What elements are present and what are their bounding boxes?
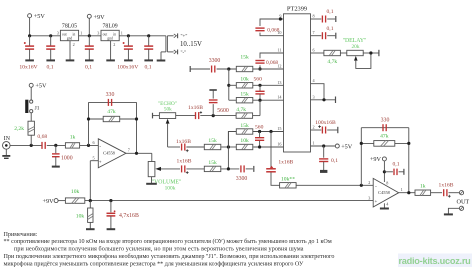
capacitor 1x16B (pin15 chain) xyxy=(266,169,276,172)
power terminal +5V (pin1) xyxy=(335,144,339,148)
capacitor 1x16B (volume row) xyxy=(182,165,185,172)
potentiometer ECHO 50k body xyxy=(159,113,175,119)
wire op1 +in xyxy=(90,160,98,162)
wire cap 560b lower lead xyxy=(259,141,261,147)
junction raw rail / C5 xyxy=(147,34,150,37)
wire output to volume xyxy=(151,153,153,161)
svg-text:C4558: C4558 xyxy=(103,151,116,156)
wire pin7 cap to tick xyxy=(327,35,335,37)
wire pin8 cap to tick xyxy=(327,18,335,20)
svg-text:5600: 5600 xyxy=(217,108,229,114)
svg-text:4,7k: 4,7k xyxy=(327,59,337,65)
junction bias cap xyxy=(109,199,112,202)
capacitor C5 0,1 xyxy=(144,46,153,49)
svg-text:+5V: +5V xyxy=(341,143,353,150)
terminal tick row12 xyxy=(189,66,191,72)
wire OUT ground xyxy=(448,208,459,213)
svg-text:при необходимости получения бо: при необходимости получения большего уси… xyxy=(14,246,304,253)
wire pin7 xyxy=(311,35,322,37)
wire cap 560b upper lead xyxy=(259,132,261,138)
svg-text:0,068: 0,068 xyxy=(266,60,278,66)
resistor 15k (pin14) xyxy=(236,98,253,103)
svg-text:+5V: +5V xyxy=(35,83,47,90)
wire op2 47k row xyxy=(361,142,409,144)
wire volume wiper row xyxy=(161,168,180,170)
svg-text:3300: 3300 xyxy=(209,58,221,64)
capacitor 1x16B (echo row) xyxy=(196,112,199,119)
svg-text:0,1: 0,1 xyxy=(46,65,53,71)
plus mark 1x16B echo xyxy=(200,111,202,113)
svg-text:1x16B: 1x16B xyxy=(439,183,454,189)
svg-text:100x16V: 100x16V xyxy=(117,65,139,71)
wire 5600 lower lead xyxy=(212,104,214,116)
svg-text:47k: 47k xyxy=(380,133,389,139)
wiper arrow VOLUME xyxy=(155,167,161,171)
svg-text:330: 330 xyxy=(106,92,115,98)
svg-text:1k: 1k xyxy=(70,135,76,141)
wire J1 to 2,2k xyxy=(30,113,32,121)
plus mark 1x16B out xyxy=(448,195,451,198)
svg-text:gnd: gnd xyxy=(107,37,113,41)
ground under 4,7x16B xyxy=(107,216,116,229)
svg-text:47k: 47k xyxy=(107,109,116,115)
junction 5600 node xyxy=(212,114,215,117)
wire row147 to chip xyxy=(253,146,283,148)
junction 47k right (op2) xyxy=(407,142,410,145)
wire +5V rail xyxy=(30,35,61,37)
power terminal +5V (J1) xyxy=(29,83,33,87)
svg-text:2: 2 xyxy=(368,180,370,185)
ground of power input xyxy=(157,52,166,61)
wire op1 feedback left xyxy=(88,102,90,145)
wire minus stub xyxy=(167,51,173,53)
wire 4,7k to pot xyxy=(340,52,346,54)
resistor 15k (volume row) xyxy=(204,166,221,171)
wire pin 10 loop xyxy=(260,33,284,36)
wire pin8 xyxy=(311,18,322,20)
svg-text:+9V: +9V xyxy=(94,14,106,21)
svg-text:10..15V: 10..15V xyxy=(180,41,202,48)
capacitor C1 lead xyxy=(29,36,31,46)
resistor 47k (op2) xyxy=(374,141,395,147)
ground tick op2 0,1 xyxy=(403,169,405,175)
capacitor 4,7x16B xyxy=(107,213,116,216)
svg-text:6: 6 xyxy=(93,140,95,145)
wire +5V to J1 xyxy=(30,87,32,100)
svg-text:1: 1 xyxy=(313,141,315,146)
jumper J1 xyxy=(25,100,33,113)
wire pin2 xyxy=(311,129,322,131)
wire 10k** to op-amp2 xyxy=(296,184,373,186)
wire volume row a xyxy=(186,168,204,170)
op-amp U4.1 C4558 xyxy=(98,139,126,168)
svg-text:10k: 10k xyxy=(240,77,249,83)
op-amp U4.2 C4558 xyxy=(373,178,399,207)
IC U1 PT2399 body xyxy=(284,14,311,152)
junction raw rail / C4 xyxy=(127,34,130,37)
ground under C3 xyxy=(85,49,94,60)
regulator U2 78L05 xyxy=(60,30,78,40)
junction 1000 node xyxy=(54,144,57,147)
svg-text:15k: 15k xyxy=(240,92,249,98)
capacitor 330 (op2) xyxy=(383,124,386,131)
wire IN to junction xyxy=(10,144,42,146)
svg-text:4,7k: 4,7k xyxy=(236,107,246,113)
regulator U3 78L09 xyxy=(101,30,119,40)
wire op2 0,1 row xyxy=(384,171,393,173)
wire 4,7x16B lead xyxy=(110,201,112,213)
wiper arrow DELAY xyxy=(354,56,358,61)
svg-text:1: 1 xyxy=(80,31,82,36)
svg-text:2: 2 xyxy=(113,42,115,47)
wire pin 11 loop xyxy=(260,53,284,58)
svg-text:100k: 100k xyxy=(165,185,176,191)
capacitor C3 0,1 xyxy=(85,46,94,49)
svg-text:in: in xyxy=(73,33,76,37)
terminal tick 3300 xyxy=(253,166,255,172)
svg-text:"+": "+" xyxy=(181,35,188,40)
wire echo wiper row xyxy=(168,146,180,148)
junction row15 cap xyxy=(258,130,261,133)
ground tick delay xyxy=(378,50,380,56)
ground under 78L09 xyxy=(106,41,115,61)
wire pot to junction xyxy=(363,52,378,54)
svg-text:4,7x16B: 4,7x16B xyxy=(119,213,139,219)
capacitor 0,1 (pin1) xyxy=(319,159,328,162)
junction pin 9 stub xyxy=(279,17,282,20)
svg-text:in: in xyxy=(113,33,116,37)
wire op1 +in drop to rail xyxy=(89,161,91,201)
resistor 4,7k (pin6) xyxy=(324,50,341,55)
wire pin6 xyxy=(311,52,324,54)
wire pin 9 loop xyxy=(260,19,284,26)
svg-text:3300: 3300 xyxy=(236,176,248,182)
wire row13 to chip xyxy=(253,84,284,86)
capacitor C4 100x16V xyxy=(124,46,133,49)
watermark background xyxy=(398,254,472,268)
capacitor 0,068 (pins 11-12) xyxy=(255,61,264,64)
wire 5600 upper lead xyxy=(212,91,214,99)
wire pin3 xyxy=(311,99,336,101)
wire riser pin15 down xyxy=(270,132,272,169)
ground under C1 xyxy=(25,49,34,60)
svg-text:100x16B: 100x16B xyxy=(315,120,336,126)
power terminal +5V (top left) xyxy=(28,14,32,18)
wire op1 feedback top xyxy=(89,101,137,103)
wire bus rows15-169 xyxy=(227,132,229,169)
svg-text:IN: IN xyxy=(4,136,11,142)
wire row14 to chip xyxy=(253,99,284,101)
svg-text:+9V: +9V xyxy=(370,156,382,163)
terminal bar above 5600 xyxy=(209,89,216,91)
svg-text:Примечания:: Примечания: xyxy=(4,232,38,238)
svg-text:8: 8 xyxy=(313,14,315,19)
svg-text:При подключении электретного м: При подключении электретного микрофона н… xyxy=(4,253,335,260)
svg-text:0,068: 0,068 xyxy=(267,28,279,34)
junction delay xyxy=(369,51,372,54)
svg-text:1: 1 xyxy=(401,187,403,192)
svg-text:330: 330 xyxy=(381,117,390,123)
svg-text:560: 560 xyxy=(255,124,264,130)
plus mark C1 xyxy=(24,42,26,44)
capacitor 3300 (row12) xyxy=(212,66,215,73)
wire pin2 cap to tick xyxy=(327,129,337,131)
svg-text:78L09: 78L09 xyxy=(103,24,118,30)
wire cap 560 lower lead xyxy=(259,94,261,100)
svg-text:0,1: 0,1 xyxy=(327,9,334,15)
wire bias a xyxy=(58,200,65,202)
ground under VOLUME xyxy=(146,177,157,184)
plus mark 100x16B xyxy=(318,125,321,128)
svg-text:15k: 15k xyxy=(208,138,217,144)
junction op2 inverting node xyxy=(360,184,363,187)
connector IN xyxy=(3,142,11,150)
terminal tick ECHO left xyxy=(152,113,154,119)
wire row15 left corner xyxy=(228,132,236,148)
ground under 78L05 xyxy=(66,41,75,61)
plus mark C4 xyxy=(123,42,125,44)
svg-text:50k: 50k xyxy=(164,107,172,113)
wire 4,7k to riser xyxy=(253,115,260,117)
ground tick pin2 xyxy=(337,127,339,133)
wire op2 feedback left xyxy=(360,128,362,186)
svg-text:560: 560 xyxy=(254,76,263,82)
svg-text:10k**: 10k** xyxy=(281,177,295,183)
svg-text:1x16B: 1x16B xyxy=(177,159,192,165)
junction bus volume row xyxy=(227,167,230,170)
capacitor 1000 lead xyxy=(55,145,57,153)
ground under OUT xyxy=(444,213,453,215)
ground tick pin8 xyxy=(335,16,337,22)
junction row14 xyxy=(258,99,261,102)
wire op2 supply xyxy=(383,161,385,182)
svg-text:+9V: +9V xyxy=(43,198,55,205)
resistor 47k (op1) xyxy=(103,116,120,121)
junction pin1 xyxy=(322,144,325,147)
svg-text:7: 7 xyxy=(128,148,130,153)
wire op2 feedback top xyxy=(361,127,409,129)
junction op2 supply cap xyxy=(383,170,386,173)
resistor 10k (bias top) xyxy=(65,198,84,203)
wire echo left xyxy=(153,115,160,117)
svg-text:"-": "-" xyxy=(181,51,187,56)
ground under bias 10k xyxy=(86,222,95,229)
wire row13 left xyxy=(229,84,237,86)
plus mark 1x16B chain xyxy=(270,166,274,169)
capacitor 0,68 xyxy=(42,142,45,149)
wire minus to ground xyxy=(161,51,166,53)
plus mark 1x16B row147 xyxy=(186,149,189,152)
ground tick pin7 xyxy=(335,33,337,39)
svg-text:+: + xyxy=(374,200,377,205)
resistor 15k (pin15) xyxy=(236,129,253,134)
resistor 4,7k (row 14 feed) xyxy=(236,113,253,118)
wire row14 left xyxy=(229,99,237,101)
junction +9V rail / C3 xyxy=(88,34,91,37)
svg-text:+: + xyxy=(99,161,102,166)
junction IN / 2,2k xyxy=(30,144,33,147)
svg-text:radio-kits.ucoz.ru: radio-kits.ucoz.ru xyxy=(398,256,470,266)
wire echo wiper down xyxy=(167,123,169,147)
capacitor 5600 xyxy=(209,100,218,103)
wire +9V vertical xyxy=(88,18,90,36)
potentiometer DELAY 20k body xyxy=(347,50,363,55)
svg-text:78L05: 78L05 xyxy=(62,24,77,30)
ground under 1000 xyxy=(52,157,60,167)
svg-text:0,1: 0,1 xyxy=(327,26,334,32)
svg-text:0,1: 0,1 xyxy=(331,158,338,164)
wire row12 left xyxy=(190,68,210,70)
wire riser to row14 xyxy=(259,100,261,115)
wire 1k to cap xyxy=(431,192,443,194)
wire cap to OUT xyxy=(449,192,460,194)
svg-text:0,1: 0,1 xyxy=(393,162,400,168)
svg-text:5: 5 xyxy=(93,155,95,160)
ground tick pin3 xyxy=(335,97,337,104)
capacitor C1 10x16V xyxy=(25,46,34,49)
junction +5V rail / C1 xyxy=(28,34,31,37)
svg-text:15k: 15k xyxy=(208,160,217,166)
ground under C4 xyxy=(124,49,133,60)
wire row147 b xyxy=(221,146,236,148)
svg-text:15k: 15k xyxy=(240,123,249,129)
wiper arrow ECHO xyxy=(166,119,170,124)
wire 10k-v top lead xyxy=(89,201,91,208)
resistor 10k (bias bottom) xyxy=(88,208,93,222)
junction bus row13 xyxy=(227,84,230,87)
svg-text:16: 16 xyxy=(277,142,281,147)
wire cap 560 upper lead xyxy=(259,85,261,91)
wire 1x16B to 10k** xyxy=(271,172,280,185)
ground under pin1 cap xyxy=(320,162,327,172)
junction +5V rail / C2 xyxy=(49,34,52,37)
svg-text:J1: J1 xyxy=(35,106,40,112)
svg-text:3: 3 xyxy=(313,94,315,99)
power terminal +9V (bias) xyxy=(54,199,58,203)
wire 1k to op-amp1 xyxy=(80,144,99,146)
connector X1 body xyxy=(166,36,168,52)
junction bias divider xyxy=(89,199,92,202)
junction op1 output xyxy=(135,152,138,155)
capacitor 3300 (volume row) xyxy=(241,165,244,172)
wire op2 feedback right xyxy=(408,128,410,193)
svg-text:0,1: 0,1 xyxy=(85,65,92,71)
svg-text:1x16B: 1x16B xyxy=(278,160,293,166)
svg-text:10k: 10k xyxy=(71,189,80,195)
wire echo cap to junction xyxy=(200,115,236,117)
resistor 15k (row 147) xyxy=(204,144,221,149)
wire op1 feedback right xyxy=(136,102,138,153)
wire 2,2k to IN row xyxy=(30,135,32,145)
resistor 15k (pin12) xyxy=(236,66,253,71)
svg-text:1000: 1000 xyxy=(61,156,73,162)
potentiometer VOLUME 100k body xyxy=(148,162,155,177)
connector X1 minus pin xyxy=(174,50,178,55)
wire row147 a xyxy=(186,146,204,148)
capacitor C5 lead xyxy=(148,36,150,46)
svg-text:2,2k: 2,2k xyxy=(14,126,24,132)
svg-text:микрофона придётся уменьшить с: микрофона придётся уменьшить сопротивлен… xyxy=(4,260,304,267)
svg-text:3: 3 xyxy=(368,195,370,200)
wire row15 to chip xyxy=(253,131,284,133)
svg-text:6: 6 xyxy=(313,48,315,53)
svg-text:3: 3 xyxy=(97,31,99,36)
capacitor 560 (pins 15-16) xyxy=(255,138,264,141)
svg-text:10k: 10k xyxy=(76,213,85,219)
junction row13 cap xyxy=(258,84,261,87)
ground under C2 xyxy=(46,49,55,60)
svg-text:2: 2 xyxy=(73,42,75,47)
resistor 1k (input) xyxy=(65,143,79,148)
power terminal +9V (op2) xyxy=(382,157,386,161)
capacitor 1000 xyxy=(52,154,60,157)
svg-text:gnd: gnd xyxy=(67,37,73,41)
wire op2 0,1 to tick xyxy=(399,171,404,173)
junction 47k left (op2) xyxy=(360,142,363,145)
resistor 1k (output) xyxy=(415,190,431,195)
ground under IN xyxy=(2,149,10,158)
capacitor C3 lead xyxy=(88,36,90,46)
junction bus row147 xyxy=(227,145,230,148)
junction 47k right xyxy=(135,117,138,120)
svg-text:8: 8 xyxy=(386,180,388,185)
capacitor C2 0,1 xyxy=(46,46,55,49)
junction row12 cap xyxy=(258,67,261,70)
svg-text:13: 13 xyxy=(277,80,281,85)
capacitor 1x16B (output) xyxy=(444,189,447,196)
svg-text:7: 7 xyxy=(313,30,315,35)
svg-text:OUT: OUT xyxy=(457,199,470,206)
capacitor 560 (pins 13-14) xyxy=(255,91,264,94)
svg-text:15k: 15k xyxy=(240,55,249,61)
wire +5V vertical xyxy=(29,18,31,36)
capacitor C2 lead xyxy=(50,36,52,46)
svg-text:0,1: 0,1 xyxy=(144,65,151,71)
svg-text:11: 11 xyxy=(277,48,281,53)
resistor 10k** xyxy=(280,183,297,188)
junction row15 riser xyxy=(269,130,272,133)
wire echo right xyxy=(176,115,195,117)
ground under C5 xyxy=(144,49,153,60)
junction 47k left xyxy=(87,117,90,120)
svg-text:1: 1 xyxy=(121,31,123,36)
wire op1 output xyxy=(126,152,152,154)
capacitor 0,1 (pin7) xyxy=(322,32,325,39)
connector OUT pin bottom xyxy=(459,206,463,210)
svg-text:10k: 10k xyxy=(240,138,249,144)
wire cap to row12 xyxy=(259,65,261,69)
wire op2 output xyxy=(399,192,415,194)
capacitor 0,1 (op2) xyxy=(394,169,397,176)
power terminal +9V (top) xyxy=(87,14,91,18)
plus mark 1x16B volume xyxy=(186,171,189,174)
capacitor C4 lead xyxy=(127,36,129,46)
connector OUT pin top xyxy=(459,191,463,195)
wire volume row b xyxy=(221,168,239,170)
wire pin1 xyxy=(311,145,336,147)
wire delay wiper loop xyxy=(356,53,371,68)
capacitor 0,068 (pins 9-10) xyxy=(255,28,264,31)
wire row12 mid xyxy=(217,68,237,70)
junction bus row12 xyxy=(227,67,230,70)
wire 3300 to tick xyxy=(246,168,253,170)
svg-text:** сопротивление резистора 10: ** сопротивление резистора 10 кОм на вхо… xyxy=(4,238,332,245)
wire pin1 cap lead xyxy=(323,146,325,158)
wire +9V rail xyxy=(79,35,101,37)
resistor 10k (pin13) xyxy=(236,83,253,88)
junction row16 cap xyxy=(258,145,261,148)
ground op2 pin4 xyxy=(380,203,389,208)
